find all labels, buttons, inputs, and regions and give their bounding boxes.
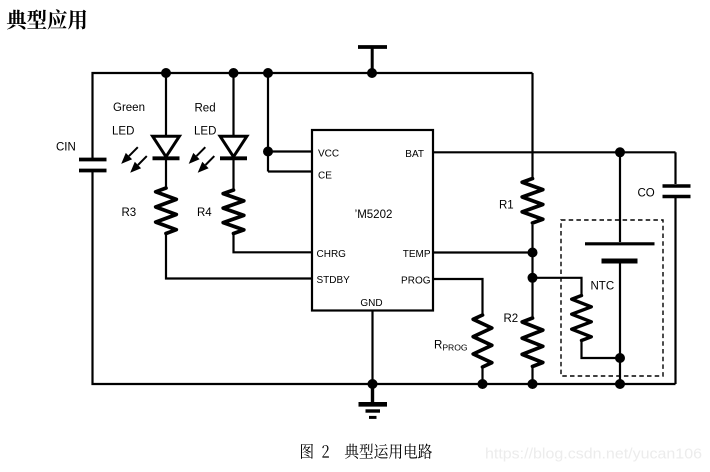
svg-text:NTC: NTC [591, 281, 615, 293]
svg-text:LED: LED [112, 126, 134, 138]
resistor R3 [156, 188, 177, 234]
svg-text:CO: CO [638, 188, 655, 200]
LED D2 red [189, 136, 247, 173]
wire: NTC top lead from R1/R2 node [533, 278, 582, 296]
svg-text:LED: LED [194, 126, 216, 138]
wire: BAT line from IC to CO rail [433, 151, 676, 153]
wire: node to CE pin [268, 170, 312, 172]
wire: red LED anode from top rail [232, 73, 234, 137]
wire: VCC/CE branch from top rail [267, 73, 269, 172]
junction: battery / bottom rail [615, 379, 625, 389]
svg-text:TEMP: TEMP [403, 249, 431, 260]
wire: TEMP line from IC to R1/R2 node [433, 251, 533, 253]
svg-text:R3: R3 [122, 207, 137, 219]
wire: green LED anode from top rail [165, 73, 167, 137]
junction: RPROG / bottom rail [478, 379, 488, 389]
svg-text:PROG: PROG [401, 276, 431, 287]
wire: GND pin to bottom rail [371, 311, 373, 385]
junction: NTC/battery node [615, 353, 625, 363]
title text 典型应用 [7, 9, 86, 29]
resistor R2 [522, 318, 543, 367]
svg-text:VCC: VCC [318, 149, 339, 160]
capacitor CIN [79, 160, 107, 171]
capacitor CO [663, 186, 691, 197]
wire: PROG line from IC down to RPROG [433, 279, 483, 315]
svg-text:STDBY: STDBY [317, 275, 351, 286]
wire: NTC bottom lead to battery node [582, 341, 621, 359]
svg-text:R2: R2 [504, 313, 519, 325]
resistor R4 [223, 190, 244, 234]
junction: top rail / power bar [367, 68, 377, 78]
wire: node to VCC pin [268, 150, 312, 152]
svg-text:CE: CE [318, 170, 332, 181]
svg-text:CHRG: CHRG [317, 249, 347, 260]
svg-text:R1: R1 [499, 200, 514, 212]
svg-text:Green: Green [113, 102, 145, 114]
junction: top rail / red LED [229, 68, 239, 78]
svg-text:https://blog.csdn.net/yucan106: https://blog.csdn.net/yucan106 [485, 446, 702, 463]
wire: red LED cathode to R4 [232, 159, 234, 190]
junction: BAT node [615, 147, 625, 157]
LED D1 green [121, 136, 179, 173]
resistor R1 [522, 179, 543, 224]
junction: GND / bottom rail [368, 379, 378, 389]
junction: R2 / bottom rail [528, 379, 538, 389]
wire: left rail below CIN to bottom rail [93, 172, 676, 384]
power supply bar symbol at top [358, 47, 387, 73]
caption text 图2 典型运用电路 [301, 444, 432, 459]
wire: CO rail below capacitor to bottom rail [674, 198, 676, 384]
battery BT1 [585, 244, 655, 261]
svg-text:CIN: CIN [56, 142, 76, 154]
wire: battery negative lead to bottom rail [619, 263, 621, 384]
svg-text:R4: R4 [197, 207, 212, 219]
junction: top rail / VCC branch [263, 68, 273, 78]
wire: R3 bottom to STDBY pin [166, 234, 312, 279]
thermistor NTC [572, 296, 592, 341]
junction: TEMP node [528, 248, 538, 258]
resistor RPROG [473, 315, 492, 367]
wire: R1 branch from top rail corner down through BAT line [531, 73, 533, 180]
svg-text:Red: Red [195, 103, 216, 115]
wire: R1 bottom to R2 top [531, 225, 533, 318]
wire: R4 bottom to CHRG pin [234, 234, 313, 253]
svg-text:BAT: BAT [405, 149, 424, 160]
svg-text:GND: GND [360, 298, 382, 309]
IC U1 M5202 box [312, 130, 433, 311]
wire: green LED cathode to R3 [165, 159, 167, 188]
svg-text:RPROG: RPROG [434, 340, 468, 353]
dashed battery-pack enclosure [561, 220, 663, 376]
junction: NTC node [528, 273, 538, 283]
ground symbol [359, 384, 388, 417]
wire: RPROG bottom to bottom rail [481, 367, 483, 384]
junction: VCC-CE branch node [263, 147, 273, 157]
wire: CO rail above capacitor [674, 152, 676, 184]
svg-text:’M5202: ’M5202 [355, 209, 393, 221]
junction: top rail / green LED [161, 68, 171, 78]
wire: R2 bottom to bottom rail [531, 367, 533, 385]
wire: battery positive lead from BAT node [619, 152, 621, 242]
wire: top VCC rail [93, 73, 533, 158]
